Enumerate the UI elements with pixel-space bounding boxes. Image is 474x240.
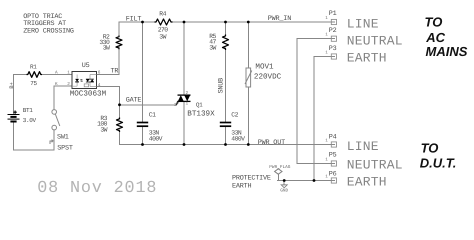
wire battery bottom down xyxy=(13,122,15,151)
wire R1 to U5 pin A xyxy=(42,74,72,76)
node earth junction P3 xyxy=(313,179,316,182)
svg-text:MOC3063M: MOC3063M xyxy=(70,90,107,99)
wire R3 top lead xyxy=(119,105,121,118)
resistor R3 xyxy=(117,118,123,133)
svg-text:3W: 3W xyxy=(159,33,166,40)
svg-text:1: 1 xyxy=(67,70,70,75)
svg-text:K: K xyxy=(55,82,58,87)
node GND junction xyxy=(283,179,286,182)
wire K column down to switch xyxy=(53,86,55,109)
svg-text:LINE: LINE xyxy=(347,139,379,154)
svg-text:TR: TR xyxy=(111,68,119,76)
svg-text:SNUB: SNUB xyxy=(218,78,226,94)
svg-text:EARTH: EARTH xyxy=(347,50,387,65)
svg-text:SPST: SPST xyxy=(57,145,73,153)
node C2 bottom xyxy=(224,143,227,146)
node MOV bottom xyxy=(247,143,250,146)
svg-text:R4: R4 xyxy=(159,10,166,17)
node FILT top xyxy=(141,21,144,24)
svg-text:P3: P3 xyxy=(329,45,337,53)
wire switch bottom riser xyxy=(53,130,55,150)
svg-text:LINE: LINE xyxy=(347,16,379,31)
node R5 top xyxy=(224,21,227,24)
svg-text:D.U.T.: D.U.T. xyxy=(420,156,457,171)
power flag PWR_FLAG diamond xyxy=(275,169,282,174)
wire P3 earth drop xyxy=(314,57,335,181)
svg-text:75: 75 xyxy=(30,80,37,87)
svg-text:PWR_IN: PWR_IN xyxy=(268,15,291,23)
svg-text:P1: P1 xyxy=(329,10,337,18)
svg-text:A: A xyxy=(55,70,58,75)
svg-text:EARTH: EARTH xyxy=(347,175,387,190)
node triac bottom xyxy=(183,143,186,146)
svg-text:MAINS: MAINS xyxy=(426,44,468,59)
svg-text:GATE: GATE xyxy=(126,97,142,105)
svg-text:TO: TO xyxy=(421,141,439,156)
connector pin P6 xyxy=(331,178,336,183)
resistor R2 xyxy=(116,36,122,50)
wire top rail PWR_IN left of R4 xyxy=(119,21,155,23)
wire bottom left horizontal xyxy=(14,149,55,151)
connector pin P3 xyxy=(331,54,336,59)
svg-text:NEUTRAL: NEUTRAL xyxy=(347,157,403,172)
svg-text:2: 2 xyxy=(186,91,189,96)
svg-text:AC: AC xyxy=(425,30,445,45)
resistor R4 xyxy=(155,19,173,25)
svg-text:TO: TO xyxy=(425,15,443,30)
svg-text:1: 1 xyxy=(186,102,189,107)
svg-text:PWR_OUT: PWR_OUT xyxy=(258,139,285,147)
connector pin P1 xyxy=(331,19,336,24)
wire top rail PWR_IN right of R4 xyxy=(173,21,335,23)
wire MOV column top xyxy=(247,22,249,68)
wire left column to battery xyxy=(13,75,15,115)
svg-text:P4: P4 xyxy=(329,133,337,141)
wire TR net U5 pin6 to R2 xyxy=(97,74,120,76)
wire FILT column upper xyxy=(142,22,144,122)
node triac top xyxy=(183,21,186,24)
svg-text:SW1: SW1 xyxy=(57,133,69,141)
svg-text:1: 1 xyxy=(325,138,328,143)
svg-text:08 Nov 2018: 08 Nov 2018 xyxy=(37,179,157,198)
svg-text:3W: 3W xyxy=(103,45,110,52)
svg-text:3: 3 xyxy=(174,103,177,108)
wire triac column bottom xyxy=(183,102,185,145)
connector pin P5 xyxy=(331,161,336,166)
svg-text:BT139X: BT139X xyxy=(187,109,215,118)
svg-text:C1: C1 xyxy=(149,111,156,118)
svg-text:1: 1 xyxy=(325,50,328,55)
node MOV top xyxy=(247,21,250,24)
svg-text:3W: 3W xyxy=(100,127,107,134)
svg-text:1: 1 xyxy=(325,33,328,38)
wire GATE to triac gate xyxy=(120,102,180,105)
svg-text:400V: 400V xyxy=(231,136,245,143)
wire protective earth xyxy=(278,180,335,182)
ground GND symbol xyxy=(281,185,287,188)
svg-text:B+: B+ xyxy=(9,82,15,88)
svg-text:3.0V: 3.0V xyxy=(23,117,37,124)
svg-text:3W: 3W xyxy=(209,44,216,51)
svg-text:U5: U5 xyxy=(82,62,90,70)
LED inside U5 xyxy=(72,75,83,87)
wire bottom rail PWR_OUT xyxy=(120,144,335,146)
svg-text:EARTH: EARTH xyxy=(232,183,252,191)
wire C2 bottom lead xyxy=(225,127,227,145)
svg-text:1: 1 xyxy=(325,174,328,179)
transistor Q1 triac BT139X xyxy=(177,95,191,105)
varistor MOV1 xyxy=(245,68,252,87)
svg-text:1: 1 xyxy=(325,16,328,21)
connector pin P2 xyxy=(331,36,336,41)
wire B+ to R1 xyxy=(14,74,27,76)
svg-text:MOV1: MOV1 xyxy=(255,62,274,71)
wire R5 top lead xyxy=(225,22,227,35)
resistor R5 xyxy=(223,35,229,50)
wire MOV column bottom xyxy=(247,87,249,145)
svg-text:6: 6 xyxy=(98,70,101,75)
svg-text:220VDC: 220VDC xyxy=(254,72,282,81)
resistor R1 xyxy=(27,72,42,78)
svg-text:4: 4 xyxy=(98,83,101,88)
svg-text:PROTECTIVE: PROTECTIVE xyxy=(232,174,271,182)
svg-text:400V: 400V xyxy=(149,136,163,143)
svg-text:Q1: Q1 xyxy=(196,102,203,109)
wire U5 pin4 elbow to GATE xyxy=(97,87,120,105)
svg-text:P6: P6 xyxy=(329,171,337,179)
svg-text:P5: P5 xyxy=(329,152,337,160)
op-amp U5 opto MOC3063M box xyxy=(72,72,97,89)
wire triac column top xyxy=(183,22,185,95)
svg-text:R1: R1 xyxy=(30,64,37,71)
battery BT1 xyxy=(8,111,20,122)
switch SW1 xyxy=(50,110,60,144)
svg-text:1: 1 xyxy=(325,157,328,162)
wire GND stub xyxy=(283,181,285,185)
connector pin P4 xyxy=(331,142,336,147)
svg-text:GND: GND xyxy=(280,189,288,194)
wire FILT column lower xyxy=(142,127,144,145)
wire P2 to P5 neutral branch xyxy=(297,39,335,164)
svg-text:BT1: BT1 xyxy=(23,107,34,114)
wire R2 bottom to TR xyxy=(118,47,120,75)
svg-text:NEUTRAL: NEUTRAL xyxy=(347,34,403,49)
wire SNUB R5 to C2 xyxy=(225,48,227,122)
triac inside U5 xyxy=(84,75,96,87)
wire U5 pin K horizontal xyxy=(54,85,72,87)
svg-text:FILT: FILT xyxy=(126,15,142,23)
wire R3 bottom lead xyxy=(119,130,121,145)
wire PWR_FLAG stem xyxy=(277,174,279,180)
capacitor C1 xyxy=(137,123,148,127)
svg-text:P2: P2 xyxy=(329,27,337,35)
svg-text:PWR_FLAG: PWR_FLAG xyxy=(269,165,290,170)
svg-text:2: 2 xyxy=(67,82,70,87)
svg-text:ZERO CROSSING: ZERO CROSSING xyxy=(23,28,74,36)
node GATE junction xyxy=(118,103,121,106)
node C1 bottom xyxy=(141,143,144,146)
wire R2 column top lead xyxy=(118,22,120,36)
svg-text:C2: C2 xyxy=(231,111,238,118)
capacitor C2 xyxy=(220,123,231,127)
